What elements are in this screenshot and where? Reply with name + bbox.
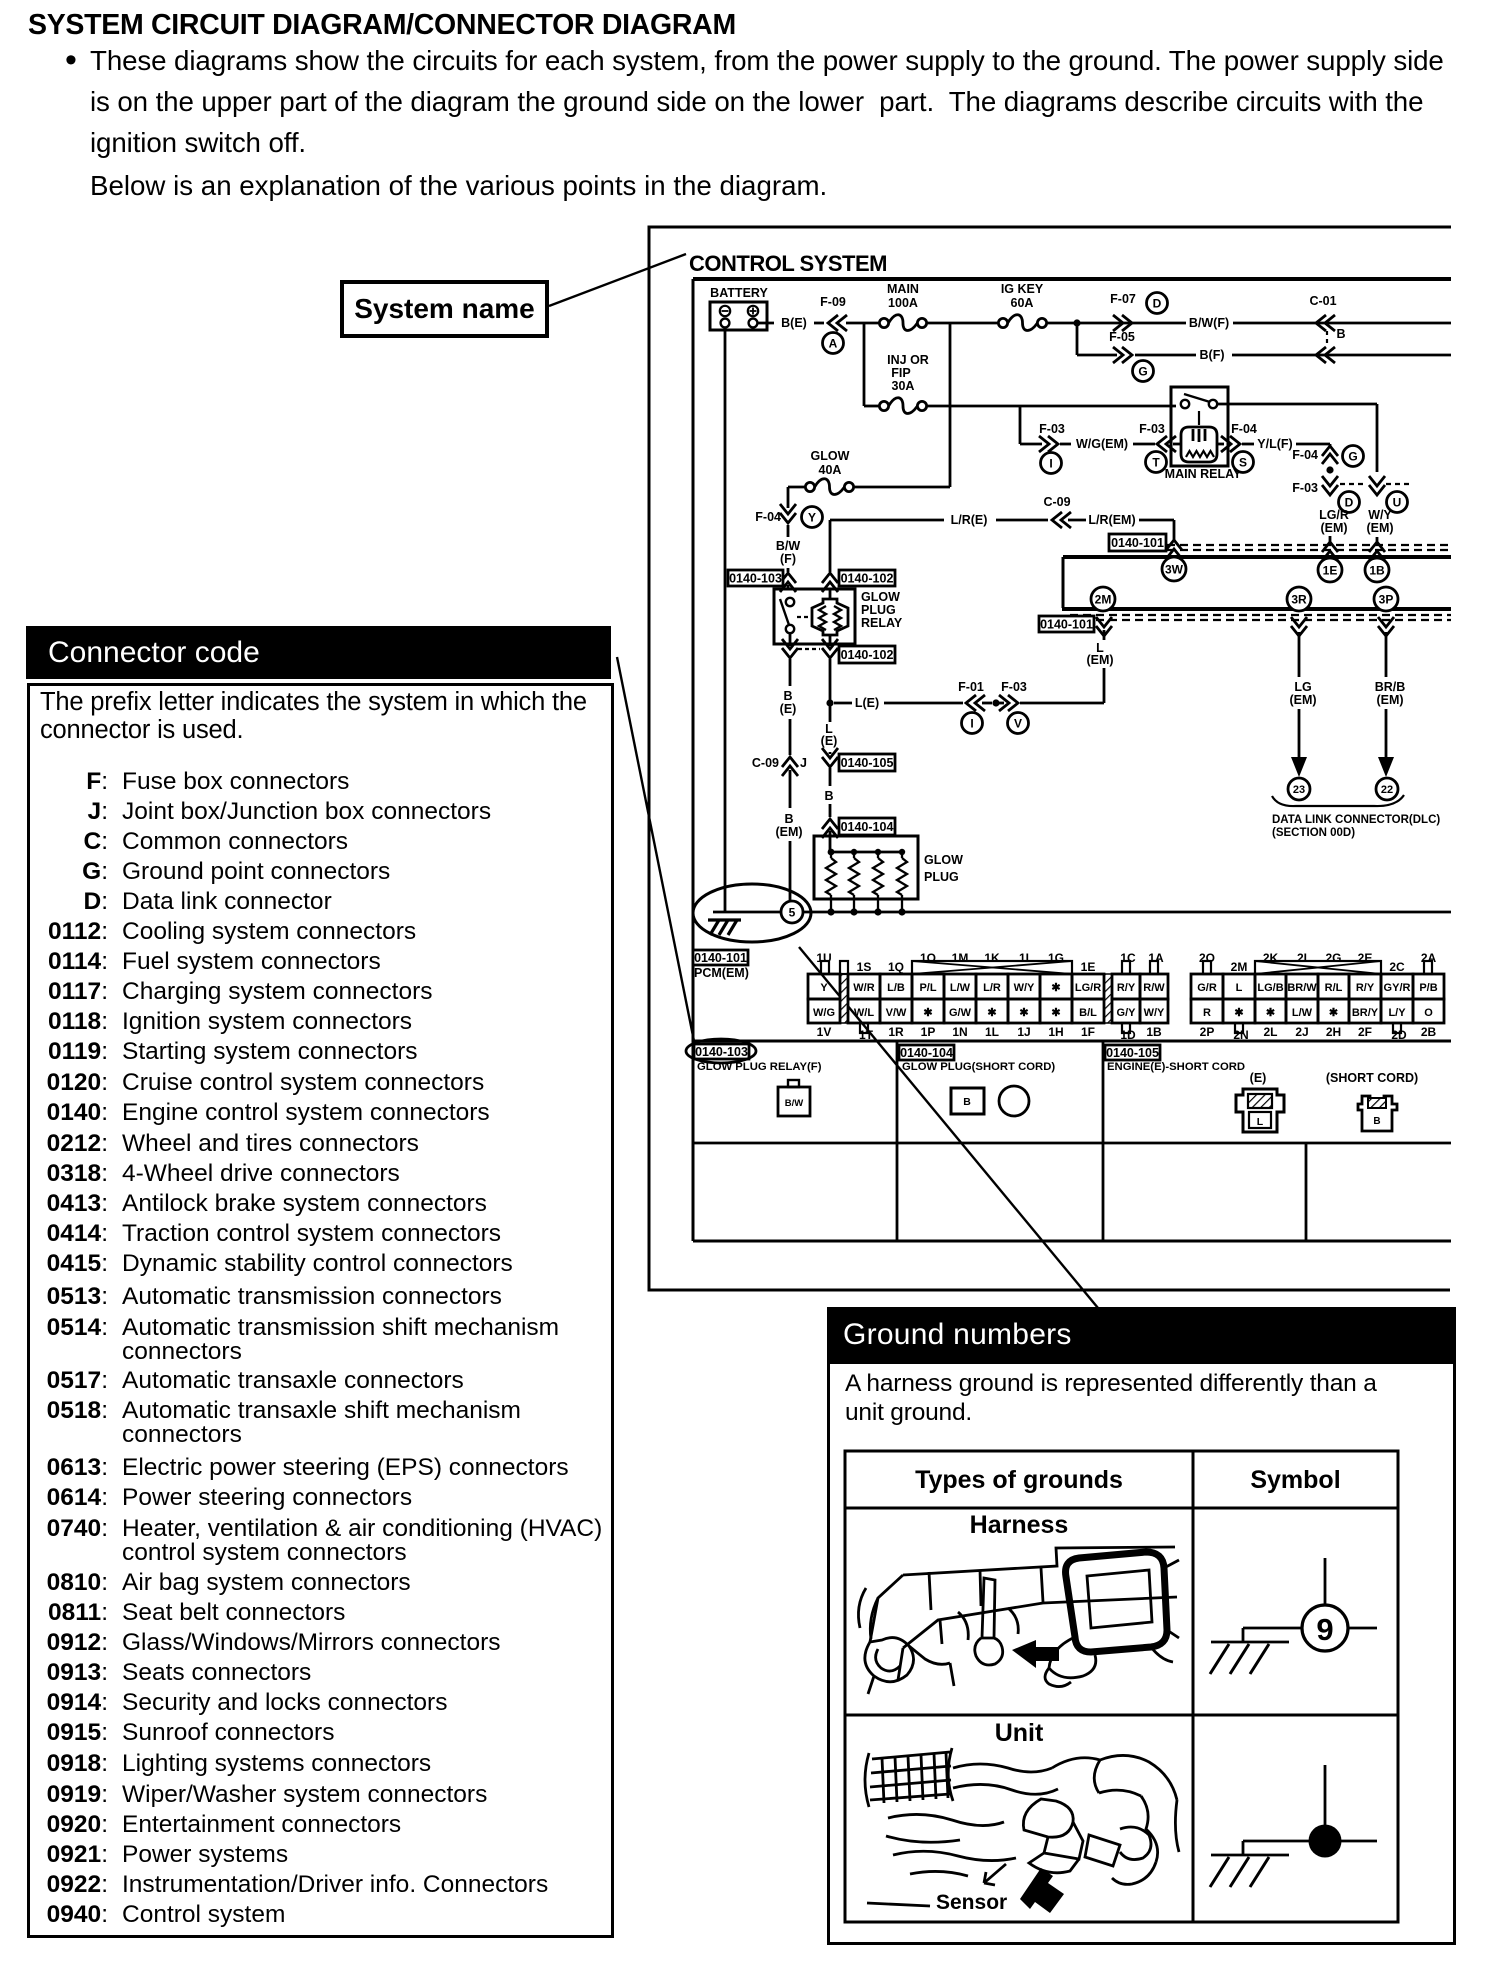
svg-text:L/W: L/W xyxy=(950,982,971,994)
wire battery to ground xyxy=(724,327,727,912)
table dividers xyxy=(896,1041,899,1241)
svg-text:A: A xyxy=(829,336,838,350)
svg-text:GLOW PLUG RELAY(F): GLOW PLUG RELAY(F) xyxy=(697,1061,822,1073)
svg-text:✱: ✱ xyxy=(1051,1007,1060,1019)
node 3P xyxy=(1374,587,1398,611)
wire LG(EM) to DLC xyxy=(1298,632,1301,677)
glow plug element 2 xyxy=(853,852,855,858)
svg-text:L(E): L(E) xyxy=(855,696,879,710)
svg-text:G/Y: G/Y xyxy=(1117,1007,1137,1019)
svg-text:B/W(F): B/W(F) xyxy=(1189,316,1229,330)
svg-text:(EM): (EM) xyxy=(775,825,802,839)
svg-text:LG/R: LG/R xyxy=(1075,982,1101,994)
wire to glow fuse xyxy=(949,323,952,487)
node 3R xyxy=(1287,587,1311,611)
svg-text:1S: 1S xyxy=(857,960,872,974)
svg-text:ENGINE(E)-SHORT CORD: ENGINE(E)-SHORT CORD xyxy=(1107,1061,1245,1073)
svg-text:✱: ✱ xyxy=(987,1007,996,1019)
svg-text:F-04: F-04 xyxy=(755,510,781,524)
svg-text:B: B xyxy=(784,812,793,826)
svg-text:C-09: C-09 xyxy=(1043,495,1070,509)
svg-text:2M: 2M xyxy=(1231,960,1248,974)
svg-text:L: L xyxy=(1257,1116,1264,1128)
ground node 5 xyxy=(781,901,803,923)
svg-text:2P: 2P xyxy=(1200,1025,1215,1039)
connector 0140-102 top xyxy=(829,520,832,572)
svg-text:B/L: B/L xyxy=(1079,1007,1097,1019)
connector icon (E) xyxy=(1236,1089,1284,1132)
svg-text:0140-101: 0140-101 xyxy=(694,951,747,965)
section glow plug relay(F) xyxy=(694,1044,749,1059)
wire main relay switch out xyxy=(1217,403,1377,406)
svg-text:MAIN: MAIN xyxy=(887,282,919,296)
svg-text:F-03: F-03 xyxy=(1292,481,1318,495)
svg-text:2H: 2H xyxy=(1326,1025,1341,1039)
svg-text:F-04: F-04 xyxy=(1292,448,1318,462)
svg-text:3P: 3P xyxy=(1379,592,1394,606)
PCM bus 1 0140-101 xyxy=(1115,544,1451,546)
svg-text:R/L: R/L xyxy=(1325,982,1343,994)
svg-text:PCM(EM): PCM(EM) xyxy=(694,966,749,980)
svg-text:(E): (E) xyxy=(1250,1071,1267,1085)
svg-text:2I: 2I xyxy=(1297,951,1307,965)
ground ellipse xyxy=(693,884,811,942)
svg-text:100A: 100A xyxy=(888,296,918,310)
PCM connector block 1 xyxy=(840,974,848,1023)
svg-text:LG/B: LG/B xyxy=(1257,982,1283,994)
svg-text:✱: ✱ xyxy=(1051,982,1060,994)
svg-text:(EM): (EM) xyxy=(1376,693,1403,707)
svg-text:0140-105: 0140-105 xyxy=(1106,1046,1159,1060)
svg-text:G/W: G/W xyxy=(949,1007,972,1019)
svg-text:60A: 60A xyxy=(1011,296,1034,310)
svg-text:R/W: R/W xyxy=(1143,982,1165,994)
svg-text:✱: ✱ xyxy=(1329,1007,1338,1019)
wire INJ to main relay xyxy=(927,405,1176,408)
svg-text:40A: 40A xyxy=(819,463,842,477)
svg-text:PLUG: PLUG xyxy=(861,603,896,617)
svg-text:GLOW: GLOW xyxy=(811,449,850,463)
svg-text:LG: LG xyxy=(1294,680,1311,694)
svg-text:V/W: V/W xyxy=(886,1007,907,1019)
svg-text:G: G xyxy=(1348,449,1357,463)
svg-text:LG/R: LG/R xyxy=(1319,508,1349,522)
svg-text:2O: 2O xyxy=(1199,951,1215,965)
wire B(E) left leg xyxy=(789,659,792,686)
svg-text:F-03: F-03 xyxy=(1001,680,1027,694)
svg-text:BATTERY: BATTERY xyxy=(710,286,768,300)
svg-text:B: B xyxy=(1373,1116,1380,1127)
svg-text:W/Y: W/Y xyxy=(1368,508,1392,522)
svg-text:F-03: F-03 xyxy=(1139,422,1165,436)
svg-text:1K: 1K xyxy=(984,951,1000,965)
svg-text:1V: 1V xyxy=(817,1025,832,1039)
crossed box block 2 xyxy=(1255,961,1381,974)
svg-text:B/W: B/W xyxy=(785,1098,804,1109)
relay icon xyxy=(778,1087,810,1116)
connector icon short cord xyxy=(1358,1096,1397,1131)
figure outer box xyxy=(649,227,1451,1290)
node 3W xyxy=(1166,540,1182,550)
svg-text:(E): (E) xyxy=(780,702,797,716)
svg-text:B: B xyxy=(1336,327,1345,341)
svg-text:FIP: FIP xyxy=(891,366,910,380)
svg-text:0140-103: 0140-103 xyxy=(729,572,782,586)
svg-text:S: S xyxy=(1239,455,1247,469)
svg-text:2C: 2C xyxy=(1389,960,1405,974)
svg-text:✱: ✱ xyxy=(1234,1007,1243,1019)
svg-text:F-09: F-09 xyxy=(820,295,846,309)
svg-text:0140-102: 0140-102 xyxy=(841,572,894,586)
svg-text:0140-102: 0140-102 xyxy=(841,648,894,662)
svg-text:L: L xyxy=(1236,982,1243,994)
svg-text:J: J xyxy=(800,756,807,770)
svg-text:P/L: P/L xyxy=(919,982,936,994)
wire BR/B(EM) to DLC xyxy=(1385,632,1388,677)
svg-text:22: 22 xyxy=(1381,784,1393,796)
svg-text:W/G(EM): W/G(EM) xyxy=(1076,437,1128,451)
PCM bus 2 0140-101 xyxy=(1062,607,1451,611)
svg-text:(EM): (EM) xyxy=(1320,521,1347,535)
svg-text:✱: ✱ xyxy=(1019,1007,1028,1019)
unit photo illustration xyxy=(865,1748,1179,1906)
svg-text:1M: 1M xyxy=(952,951,969,965)
svg-text:2M: 2M xyxy=(1095,592,1112,606)
svg-text:1T: 1T xyxy=(859,1028,874,1042)
svg-text:G/R: G/R xyxy=(1197,982,1217,994)
W/Y leg xyxy=(1369,485,1385,495)
svg-text:GLOW: GLOW xyxy=(861,590,900,604)
svg-text:2F: 2F xyxy=(1358,1025,1372,1039)
svg-text:(EM): (EM) xyxy=(1086,653,1113,667)
svg-text:W/Y: W/Y xyxy=(1144,1007,1165,1019)
svg-text:L/R(E): L/R(E) xyxy=(951,513,988,527)
fuse INJ OR FIP 30A xyxy=(863,323,866,406)
wire L(E) horizontal xyxy=(834,702,852,705)
svg-text:1E: 1E xyxy=(1323,563,1338,577)
svg-text:1H: 1H xyxy=(1048,1025,1063,1039)
DLC bracket xyxy=(1272,795,1404,806)
svg-text:B: B xyxy=(783,689,792,703)
main relay xyxy=(1171,387,1228,466)
svg-text:1B: 1B xyxy=(1369,563,1385,577)
crossed box block 1 xyxy=(912,961,1072,974)
node 1B xyxy=(1369,542,1385,552)
pin stubs block 2 xyxy=(1203,961,1211,974)
svg-text:L/R: L/R xyxy=(983,982,1001,994)
svg-text:GLOW: GLOW xyxy=(924,853,963,867)
svg-text:P/B: P/B xyxy=(1419,982,1437,994)
svg-text:RELAY: RELAY xyxy=(861,616,903,630)
svg-text:1L: 1L xyxy=(985,1025,999,1039)
svg-text:L/B: L/B xyxy=(887,982,905,994)
svg-text:✱: ✱ xyxy=(1266,1007,1275,1019)
wire L(E) leg xyxy=(829,659,832,700)
wire Y/L(F) xyxy=(1217,443,1224,446)
svg-text:B/W: B/W xyxy=(776,539,801,553)
glow plug relay xyxy=(774,589,855,644)
connector 0140-105 xyxy=(822,757,838,767)
svg-text:B(E): B(E) xyxy=(781,316,807,330)
svg-text:1Q: 1Q xyxy=(888,960,904,974)
wire xyxy=(927,322,998,325)
svg-text:(SHORT CORD): (SHORT CORD) xyxy=(1326,1071,1418,1085)
LG/R leg connectors F-04 F-03 xyxy=(1329,444,1332,447)
svg-text:GY/R: GY/R xyxy=(1384,982,1411,994)
svg-text:1E: 1E xyxy=(1081,960,1096,974)
connector 0140-103 chevron xyxy=(780,573,796,583)
svg-text:B: B xyxy=(824,789,833,803)
svg-text:L/Y: L/Y xyxy=(1388,1007,1406,1019)
svg-text:C-01: C-01 xyxy=(1309,294,1336,308)
svg-text:Y/L(F): Y/L(F) xyxy=(1257,437,1292,451)
svg-text:F-04: F-04 xyxy=(1231,422,1257,436)
svg-text:O: O xyxy=(1424,1007,1433,1019)
main relay coil xyxy=(1198,411,1200,425)
PCM connector label xyxy=(693,950,748,965)
schematic inner frame xyxy=(693,277,1451,281)
svg-text:R/Y: R/Y xyxy=(1356,982,1375,994)
svg-text:BR/W: BR/W xyxy=(1287,982,1317,994)
wire branch to B(F) xyxy=(1076,323,1079,355)
svg-text:W/Y: W/Y xyxy=(1014,982,1035,994)
svg-text:1J: 1J xyxy=(1017,1025,1030,1039)
svg-text:0140-104: 0140-104 xyxy=(900,1046,953,1060)
ground numbers pointer line xyxy=(799,947,1098,1308)
svg-text:L/W: L/W xyxy=(1292,1007,1313,1019)
svg-text:F-03: F-03 xyxy=(1039,422,1065,436)
svg-text:PLUG: PLUG xyxy=(924,870,959,884)
svg-text:1P: 1P xyxy=(921,1025,936,1039)
svg-text:0140-103: 0140-103 xyxy=(695,1045,748,1059)
pin stubs block 1 xyxy=(821,961,829,974)
wire B(F) xyxy=(1135,354,1196,357)
svg-text:INJ OR: INJ OR xyxy=(887,353,929,367)
svg-text:2B: 2B xyxy=(1421,1025,1437,1039)
node 1E xyxy=(1322,542,1338,552)
svg-text:9: 9 xyxy=(1316,1612,1333,1647)
wire W/G(EM) xyxy=(1019,406,1022,444)
svg-text:30A: 30A xyxy=(892,379,915,393)
svg-text:I: I xyxy=(970,716,973,730)
svg-text:B: B xyxy=(963,1096,971,1108)
svg-text:Y: Y xyxy=(820,982,828,994)
wire B(E) xyxy=(757,322,774,325)
svg-text:(E): (E) xyxy=(821,734,838,748)
svg-text:W/L: W/L xyxy=(854,1007,874,1019)
svg-text:MAIN RELAY: MAIN RELAY xyxy=(1165,467,1242,481)
svg-text:BR/Y: BR/Y xyxy=(1352,1007,1379,1019)
svg-text:C-09: C-09 xyxy=(752,756,779,770)
glow plug element 1 xyxy=(830,852,832,858)
svg-text:I: I xyxy=(1049,456,1052,470)
section engine short cord xyxy=(1105,1045,1160,1060)
svg-text:GLOW PLUG(SHORT CORD): GLOW PLUG(SHORT CORD) xyxy=(902,1061,1055,1073)
svg-text:(EM): (EM) xyxy=(1289,693,1316,707)
wire L/R(E) xyxy=(830,519,944,522)
svg-text:✱: ✱ xyxy=(923,1007,932,1019)
svg-text:1F: 1F xyxy=(1081,1025,1095,1039)
svg-text:2G: 2G xyxy=(1325,951,1341,965)
connector 0140-102 bottom xyxy=(789,633,792,646)
svg-text:0140-104: 0140-104 xyxy=(841,820,894,834)
svg-text:2L: 2L xyxy=(1263,1025,1277,1039)
harness ground symbol xyxy=(1324,1558,1327,1606)
svg-text:(F): (F) xyxy=(780,552,796,566)
svg-text:DATA LINK CONNECTOR(DLC): DATA LINK CONNECTOR(DLC) xyxy=(1272,814,1440,826)
svg-text:23: 23 xyxy=(1293,784,1305,796)
svg-text:R: R xyxy=(1203,1007,1211,1019)
svg-text:5: 5 xyxy=(789,905,796,919)
ground wire xyxy=(713,911,781,914)
svg-text:1B: 1B xyxy=(1146,1025,1162,1039)
connector 0140-104 xyxy=(822,819,838,829)
svg-text:1I: 1I xyxy=(1019,951,1029,965)
svg-text:0140-101: 0140-101 xyxy=(1111,536,1164,550)
svg-text:L/R(EM): L/R(EM) xyxy=(1088,513,1135,527)
wire down to glow plug relay xyxy=(787,487,790,508)
glow plug box xyxy=(814,836,918,899)
svg-text:0140-105: 0140-105 xyxy=(841,756,894,770)
node 2M xyxy=(1091,587,1115,611)
wire to main fuse xyxy=(846,322,879,325)
wire main to right xyxy=(1047,322,1186,325)
relay coil xyxy=(829,589,832,599)
ground table xyxy=(845,1451,1398,1922)
system name pointer line xyxy=(549,254,686,306)
svg-text:Y: Y xyxy=(808,510,816,524)
svg-text:3W: 3W xyxy=(1165,562,1184,576)
harness photo illustration xyxy=(858,1547,1179,1694)
svg-text:G: G xyxy=(1138,364,1147,378)
svg-text:W/G: W/G xyxy=(813,1007,835,1019)
svg-text:0140-101: 0140-101 xyxy=(1040,618,1093,632)
svg-text:V: V xyxy=(1014,716,1022,730)
svg-text:F-01: F-01 xyxy=(958,680,984,694)
ground symbol xyxy=(708,918,741,921)
svg-text:F-07: F-07 xyxy=(1110,292,1136,306)
circle icon xyxy=(999,1086,1029,1116)
section glow plug short cord xyxy=(899,1045,954,1060)
svg-text:IG KEY: IG KEY xyxy=(1001,282,1044,296)
svg-text:B(F): B(F) xyxy=(1200,348,1225,362)
svg-text:R/Y: R/Y xyxy=(1117,982,1136,994)
connector table row line xyxy=(693,1040,1451,1043)
svg-text:W/R: W/R xyxy=(853,982,874,994)
svg-text:1R: 1R xyxy=(888,1025,904,1039)
unit ground symbol xyxy=(1324,1765,1327,1827)
svg-text:3R: 3R xyxy=(1291,592,1307,606)
glow plug element 3 xyxy=(877,852,879,858)
svg-text:(EM): (EM) xyxy=(1366,521,1393,535)
connector code pointer line xyxy=(617,657,695,1046)
B box icon xyxy=(951,1088,984,1114)
svg-text:F-05: F-05 xyxy=(1109,330,1135,344)
svg-text:U: U xyxy=(1393,495,1402,509)
svg-text:BR/B: BR/B xyxy=(1375,680,1406,694)
svg-text:(SECTION 00D): (SECTION 00D) xyxy=(1272,827,1355,839)
svg-text:D: D xyxy=(1153,296,1162,310)
svg-text:T: T xyxy=(1152,455,1160,469)
svg-text:2J: 2J xyxy=(1295,1025,1308,1039)
svg-text:1N: 1N xyxy=(952,1025,967,1039)
glow plug element 4 xyxy=(901,852,903,858)
PCM connector block 2 xyxy=(1191,974,1223,999)
